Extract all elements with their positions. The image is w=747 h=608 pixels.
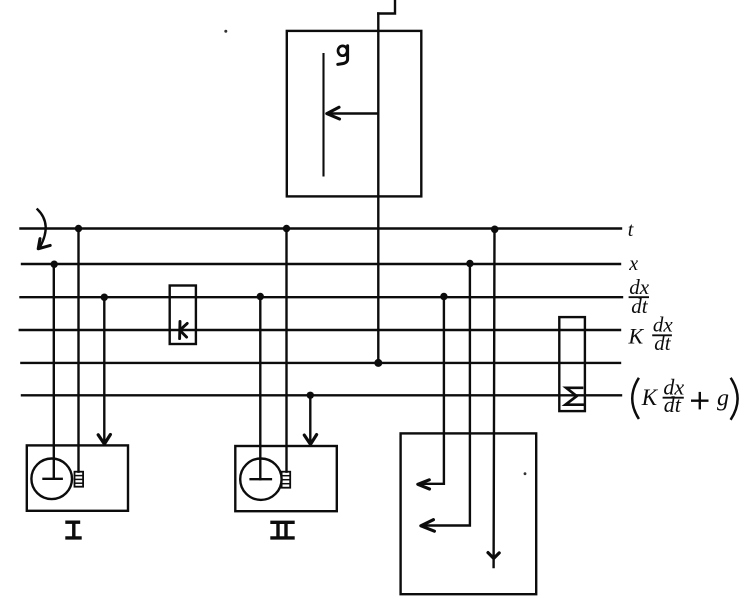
svg-text:dt: dt: [654, 331, 672, 355]
wire t to integrator I wheel: [77, 229, 79, 472]
wire bus K dx/dt: [20, 329, 620, 331]
node g-bus: [374, 359, 382, 367]
node dxdt-I: [101, 294, 108, 301]
integrator I box: [27, 445, 128, 510]
wire bus t: [21, 227, 622, 229]
node dxdt-out: [440, 293, 447, 300]
svg-text:K: K: [628, 323, 645, 348]
right paren: [731, 378, 738, 420]
node x-out: [466, 260, 473, 267]
svg-text:dt: dt: [664, 392, 682, 417]
input table box (g): [287, 31, 422, 197]
label dx/dt: [629, 275, 650, 318]
wire input g from top: [378, 0, 395, 14]
wire bus x: [22, 263, 620, 265]
integrator I wheel: [75, 472, 84, 487]
left paren: [632, 378, 639, 419]
wire t to integrator II wheel: [285, 229, 287, 472]
plus: [692, 393, 707, 408]
integrator II wheel: [282, 472, 291, 488]
node x-I: [51, 261, 58, 268]
label I: [67, 522, 80, 538]
svg-text:dt: dt: [631, 294, 649, 318]
label g handwritten: [338, 46, 348, 65]
wire t to output table: [492, 229, 495, 568]
label II: [272, 522, 293, 538]
label k handwritten: [180, 321, 188, 338]
svg-text:t: t: [628, 219, 634, 241]
wire bus g shaft: [21, 362, 620, 364]
node dxdt-II: [257, 293, 264, 300]
adder box sigma: [559, 317, 585, 411]
wire dx/dt to output table: [421, 297, 444, 484]
wire g vertical shaft: [377, 14, 379, 363]
label (K dx/dt + g): [632, 375, 737, 420]
crank rotation arrow: [38, 209, 46, 247]
output table box: [401, 433, 537, 594]
wire dx/dt output into integrator I: [103, 297, 105, 443]
speck near output box: [524, 472, 527, 475]
wire sum output into integrator II: [309, 395, 311, 444]
wire x to output table: [424, 264, 470, 526]
gear box K: [170, 286, 196, 345]
label K dx/dt: [628, 313, 674, 356]
integrator II box: [235, 446, 336, 511]
speck near top: [224, 30, 227, 33]
integrator II disc: [240, 459, 281, 500]
svg-text:g: g: [717, 386, 729, 412]
wire bus dx/dt: [21, 296, 623, 298]
node t-I: [75, 225, 82, 232]
wire bus sum output: [22, 394, 621, 396]
svg-text:x: x: [628, 253, 638, 275]
plot curve in input table: [322, 54, 324, 176]
integrator I disc: [31, 459, 72, 500]
arrow in input table: [329, 112, 378, 114]
label sigma: [566, 388, 584, 405]
svg-text:K: K: [641, 385, 659, 410]
node sum-II: [307, 392, 314, 399]
wire x to integrator I carriage: [53, 264, 55, 479]
wire dx/dt to integrator II carriage: [259, 297, 261, 479]
node t-out: [491, 226, 499, 234]
node t-II: [283, 225, 290, 232]
integrator II carriage bar: [251, 478, 271, 480]
integrator I carriage bar: [44, 478, 62, 480]
